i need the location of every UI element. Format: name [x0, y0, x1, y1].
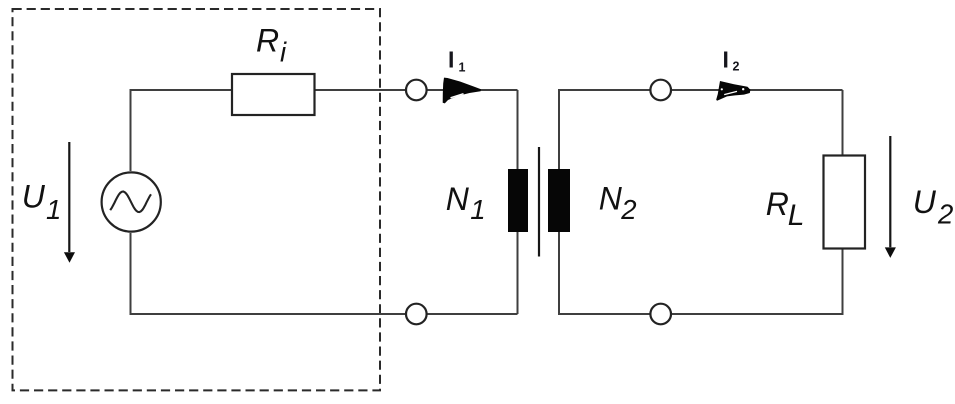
wire primary vertical down to winding: [517, 90, 519, 169]
svg-text:L: L: [788, 199, 805, 232]
voltage arrow U2: [885, 136, 896, 258]
svg-text:U: U: [22, 179, 46, 215]
terminal primary top: [406, 80, 427, 101]
svg-text:2: 2: [937, 199, 953, 230]
wire resistor to primary terminal: [315, 89, 518, 91]
dashed source box: [13, 9, 381, 390]
voltage arrow U1: [64, 142, 75, 263]
label RL: [766, 186, 805, 232]
label Ri: [256, 22, 287, 67]
svg-text:U: U: [913, 184, 937, 220]
transformer primary winding N1: [508, 169, 528, 232]
load resistor RL: [824, 156, 866, 249]
wire secondary winding top up: [559, 90, 843, 169]
terminal primary bottom: [406, 304, 427, 325]
svg-text:2: 2: [733, 60, 740, 74]
transformer secondary winding N2: [548, 169, 570, 232]
transformer core: [538, 147, 540, 257]
label N2: [599, 180, 637, 225]
sine symbol: [110, 192, 151, 213]
label U2: [913, 184, 953, 230]
svg-text:1: 1: [46, 194, 61, 225]
svg-text:I: I: [448, 47, 454, 73]
terminal secondary bottom: [650, 304, 671, 325]
wire load vertical down: [842, 90, 844, 156]
svg-text:1: 1: [470, 194, 485, 225]
svg-text:1: 1: [459, 61, 466, 75]
resistor Ri: [232, 74, 315, 115]
wire load bottom return: [559, 232, 843, 314]
svg-text:N: N: [599, 180, 623, 216]
svg-text:R: R: [766, 186, 789, 222]
svg-text:R: R: [256, 22, 279, 58]
label U1: [22, 179, 61, 225]
wire primary winding bottom down: [517, 232, 519, 314]
current arrow I1: [443, 78, 481, 104]
voltage source AC circle: [102, 172, 161, 231]
label N1: [446, 181, 486, 225]
svg-text:i: i: [280, 37, 287, 68]
label I1: [448, 47, 466, 75]
svg-text:2: 2: [620, 194, 636, 225]
wire bottom-left return: [131, 233, 518, 314]
svg-text:I: I: [723, 47, 729, 73]
terminal secondary top: [650, 80, 671, 101]
label I2: [723, 47, 740, 74]
svg-text:N: N: [446, 181, 470, 217]
wire top-left: source up to resistor: [131, 90, 233, 171]
current arrow I2: [716, 81, 750, 101]
